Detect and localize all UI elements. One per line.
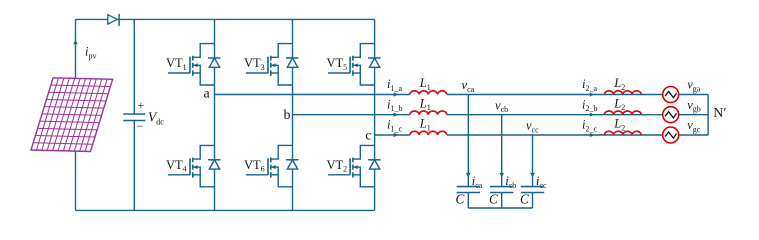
current arrow i_pv <box>73 40 77 44</box>
svg-text:L2: L2 <box>613 96 625 112</box>
current arrow i_ca <box>466 173 471 177</box>
svg-text:i2_a: i2_a <box>582 77 597 93</box>
wire phase a <box>215 94 663 96</box>
inductor L2 phase b <box>604 111 641 115</box>
wire phase b <box>293 114 663 116</box>
current arrow i2_c <box>590 133 595 137</box>
transistor VT4 <box>168 145 221 186</box>
svg-text:vga: vga <box>687 78 701 94</box>
wire grid b <box>679 114 708 116</box>
svg-text:C: C <box>520 192 529 207</box>
svg-text:vgc: vgc <box>687 118 701 134</box>
svg-text:L1: L1 <box>419 76 431 92</box>
transistor VT6 <box>246 145 299 186</box>
wire leg c rail <box>374 19 376 210</box>
svg-text:vcb: vcb <box>495 98 508 114</box>
current arrow i_cc <box>530 173 535 177</box>
transistor VT3 <box>246 44 299 85</box>
svg-text:VT1: VT1 <box>166 56 187 72</box>
svg-text:i1_b: i1_b <box>387 97 402 113</box>
inductor L1 phase b <box>410 111 447 115</box>
current arrow i2_a <box>590 92 595 96</box>
capacitor C phase c <box>521 187 544 208</box>
svg-text:b: b <box>284 108 291 123</box>
svg-text:−: − <box>137 119 144 133</box>
ac source vgc <box>663 127 679 143</box>
svg-text:L1: L1 <box>419 117 431 133</box>
svg-text:i1_a: i1_a <box>387 77 402 93</box>
svg-text:L1: L1 <box>419 96 431 112</box>
capacitor C phase b <box>490 187 513 208</box>
inductor L2 phase c <box>604 131 641 135</box>
svg-text:Vdc: Vdc <box>148 110 164 127</box>
current arrow i_cb <box>499 173 504 177</box>
wire cap branch a <box>467 95 469 187</box>
svg-text:VT3: VT3 <box>244 56 265 72</box>
wire left vertical <box>75 19 77 210</box>
wire cap branch b <box>501 115 503 187</box>
svg-text:c: c <box>365 129 371 144</box>
transistor VT1 <box>168 44 221 85</box>
wire top dc bus <box>76 18 375 20</box>
svg-text:VT2: VT2 <box>327 158 348 174</box>
svg-text:VT6: VT6 <box>244 158 265 174</box>
svg-text:i2_b: i2_b <box>582 97 597 113</box>
capacitor C phase a <box>457 187 480 208</box>
current arrow i1_b <box>394 113 399 117</box>
inductor L1 phase c <box>410 131 447 135</box>
wire neutral bus <box>707 95 709 136</box>
wire phase c <box>375 134 663 136</box>
wire leg a rail <box>214 19 216 210</box>
svg-text:i2_c: i2_c <box>582 118 597 134</box>
svg-text:C: C <box>456 192 465 207</box>
inductor L2 phase a <box>604 91 641 95</box>
svg-text:C: C <box>489 192 498 207</box>
svg-text:VT4: VT4 <box>166 158 187 174</box>
svg-text:a: a <box>204 87 211 102</box>
transistor VT2 <box>328 145 381 186</box>
ac source vga <box>663 87 679 103</box>
inductor L1 phase a <box>410 91 447 95</box>
svg-text:ipv: ipv <box>85 45 96 61</box>
current arrow i1_c <box>394 133 399 137</box>
pv array <box>31 78 113 152</box>
transistor VT5 <box>328 44 381 85</box>
svg-text:vca: vca <box>462 78 475 94</box>
svg-text:vcc: vcc <box>526 119 539 135</box>
wire cap branch c <box>532 135 534 187</box>
svg-text:VT5: VT5 <box>327 56 348 72</box>
svg-text:ica: ica <box>472 174 483 190</box>
capacitor Vdc <box>123 114 145 121</box>
svg-text:vgb: vgb <box>687 98 701 114</box>
wire bottom dc bus <box>76 209 375 211</box>
svg-text:icc: icc <box>536 174 547 190</box>
wire grid a <box>679 94 708 96</box>
svg-text:+: + <box>138 98 145 112</box>
ac source vgb <box>663 107 679 123</box>
svg-text:L2: L2 <box>613 117 625 133</box>
wire leg b rail <box>292 19 294 210</box>
wire dc-link rail <box>133 19 135 210</box>
wire grid c <box>679 134 708 136</box>
svg-text:L2: L2 <box>613 76 625 92</box>
diode D (dc blocking) <box>108 14 119 26</box>
current arrow i2_b <box>590 113 595 117</box>
svg-text:icb: icb <box>505 174 516 190</box>
current arrow i1_a <box>394 92 399 96</box>
wire cap star bus <box>468 207 532 209</box>
svg-text:i1_c: i1_c <box>387 118 402 134</box>
svg-text:N′: N′ <box>713 106 726 121</box>
